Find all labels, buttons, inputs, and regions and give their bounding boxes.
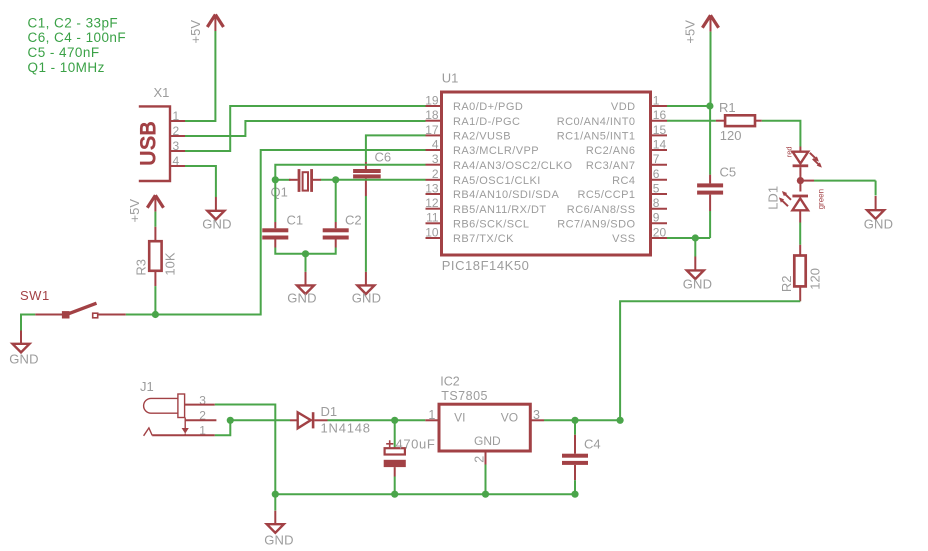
junction VDD xyxy=(706,102,713,109)
junction VO at C4 xyxy=(571,417,578,424)
wire C1 C2 bottom rail xyxy=(275,248,335,272)
junction rail left xyxy=(272,491,279,498)
pin U1.3 xyxy=(426,152,442,166)
crystal Q1 xyxy=(289,169,321,192)
wire crystal right to C2 xyxy=(335,180,337,222)
wire RC0 : U1.16 to R1 xyxy=(667,120,716,122)
resistor R3 xyxy=(149,227,161,286)
capacitor C6 xyxy=(353,162,381,196)
svg-text:13: 13 xyxy=(425,181,439,195)
svg-text:GND: GND xyxy=(9,351,39,366)
capacitor C5 xyxy=(697,175,723,211)
svg-text:16: 16 xyxy=(653,108,667,122)
IC U1 PIC18F14K50 body xyxy=(442,92,651,255)
svg-text:2: 2 xyxy=(432,167,439,181)
svg-text:RC5/CCP1: RC5/CCP1 xyxy=(577,189,635,201)
pin U1.9 xyxy=(651,211,668,225)
svg-text:RA5/OSC1/CLKI: RA5/OSC1/CLKI xyxy=(453,175,541,187)
svg-text:VSS: VSS xyxy=(612,233,635,245)
ground below X1.4 xyxy=(202,197,232,232)
+5V symbol above R3 xyxy=(147,195,163,211)
svg-text:D1: D1 xyxy=(321,404,338,419)
wire D1 to IC2 VI xyxy=(328,419,426,421)
pin U1.15 xyxy=(651,123,668,137)
pin U1.10 xyxy=(425,225,441,239)
pin U1.6 xyxy=(651,167,668,181)
svg-text:Q1 - 10MHz: Q1 - 10MHz xyxy=(28,60,105,75)
svg-text:17: 17 xyxy=(425,123,439,137)
diode D1 xyxy=(290,412,328,428)
LED red emission arrows xyxy=(810,153,822,168)
svg-text:GND: GND xyxy=(352,291,382,306)
svg-text:RB7/TX/CK: RB7/TX/CK xyxy=(453,233,514,245)
svg-text:11: 11 xyxy=(426,211,439,225)
svg-text:C1, C2 - 33pF: C1, C2 - 33pF xyxy=(28,15,119,30)
pin U1.8 xyxy=(651,196,668,210)
wire J1.3 down to GND rail xyxy=(215,405,275,495)
capacitor C2 xyxy=(323,222,349,248)
wire green LED to R2 xyxy=(799,223,801,245)
resistor R1 xyxy=(716,115,762,126)
LED LD1 red xyxy=(793,147,809,178)
svg-text:1: 1 xyxy=(428,408,435,422)
pin U1.1 xyxy=(651,93,668,107)
pin U1.18 xyxy=(425,108,441,122)
wire VSS : U1.20 to C5 bottom xyxy=(667,237,710,239)
svg-text:IC2: IC2 xyxy=(440,374,460,388)
svg-text:red: red xyxy=(785,146,794,157)
jack J1 symbol xyxy=(144,394,189,436)
svg-text:5: 5 xyxy=(653,181,660,195)
svg-text:470uF: 470uF xyxy=(396,437,436,452)
svg-text:LD1: LD1 xyxy=(766,186,781,210)
pin J1.2 xyxy=(185,419,216,421)
svg-text:RB5/AN11/RX/DT: RB5/AN11/RX/DT xyxy=(453,204,547,216)
junction Q1 right xyxy=(332,176,339,183)
wire C4 top lead xyxy=(574,420,576,435)
svg-text:VDD: VDD xyxy=(611,101,636,113)
wire 470uF to GND rail xyxy=(394,477,396,495)
wire SW1 to GND xyxy=(21,315,35,331)
pin U1.2 xyxy=(426,167,442,181)
+5V symbol (top, above X1.1) xyxy=(207,15,223,32)
wire C5 to VSS row xyxy=(709,211,711,238)
svg-text:R3: R3 xyxy=(134,259,149,276)
wire LED mid to GND xyxy=(800,177,875,196)
pin U1.7 xyxy=(651,152,668,166)
wire X1.4 to GND xyxy=(185,166,216,197)
svg-text:19: 19 xyxy=(425,93,439,107)
svg-text:R1: R1 xyxy=(719,100,736,115)
wire C6 to GND xyxy=(365,196,367,272)
junction VSS xyxy=(692,234,699,241)
svg-text:RB4/AN10/SDI/SDA: RB4/AN10/SDI/SDA xyxy=(453,189,559,201)
svg-text:3: 3 xyxy=(432,152,439,166)
pin U1.12 xyxy=(425,196,441,210)
svg-text:GND: GND xyxy=(202,217,232,232)
svg-text:120: 120 xyxy=(720,128,742,143)
wire R1 to red LED xyxy=(762,121,801,147)
wire J1.2 node to D1 xyxy=(230,419,290,421)
junction rail at C4 xyxy=(571,491,578,498)
wire MCLR : U1.4 to SW1/R3 node xyxy=(126,150,426,315)
ground right of LD1 xyxy=(864,196,894,232)
svg-text:C2: C2 xyxy=(345,213,362,228)
junction rail at IC2.2 xyxy=(482,491,489,498)
LED LD1 green xyxy=(792,195,808,223)
svg-text:U1: U1 xyxy=(442,71,459,86)
ground below C6 xyxy=(352,272,382,306)
note: component values text block xyxy=(28,15,127,74)
svg-text:TS7805: TS7805 xyxy=(441,389,488,403)
capacitor C3 470uF polarized xyxy=(384,440,406,476)
svg-text:10K: 10K xyxy=(163,252,178,275)
ground below VSS xyxy=(683,257,713,292)
svg-text:GND: GND xyxy=(474,434,501,448)
svg-text:PIC18F14K50: PIC18F14K50 xyxy=(442,258,530,273)
wire IC2.2 to GND rail xyxy=(485,465,487,495)
wire GND rail xyxy=(275,493,575,495)
ground below C1 C2 xyxy=(287,272,317,306)
svg-text:7: 7 xyxy=(653,152,660,166)
connector X1 (USB) symbol xyxy=(137,106,170,181)
pin X1.2 xyxy=(170,135,185,137)
svg-text:VI: VI xyxy=(454,411,465,425)
svg-text:RC0/AN4/INT0: RC0/AN4/INT0 xyxy=(557,116,636,128)
wire VSS to GND xyxy=(694,238,696,257)
svg-text:SW1: SW1 xyxy=(20,288,50,303)
svg-text:X1: X1 xyxy=(154,85,170,100)
wire C4 to GND rail xyxy=(574,480,576,494)
svg-text:15: 15 xyxy=(653,123,667,137)
pin U1.11 xyxy=(426,211,442,225)
ground below SW1 xyxy=(9,331,39,367)
switch SW1 xyxy=(35,303,126,318)
pin IC2.1 xyxy=(425,408,438,422)
wire crystal left to C1 xyxy=(274,180,276,222)
junction LED mid xyxy=(797,177,804,184)
+5V symbol (right, above U1 VDD) xyxy=(702,15,718,31)
svg-text:8: 8 xyxy=(653,196,660,210)
pin U1.4 xyxy=(426,137,442,151)
svg-text:RC4: RC4 xyxy=(612,175,635,187)
pin J1.3 xyxy=(185,404,215,406)
svg-text:2: 2 xyxy=(472,456,486,463)
svg-text:C6, C4 - 100nF: C6, C4 - 100nF xyxy=(28,30,127,45)
svg-text:C5 - 470nF: C5 - 470nF xyxy=(28,45,100,60)
svg-text:RC1/AN5/INT1: RC1/AN5/INT1 xyxy=(557,131,636,143)
svg-text:+5V: +5V xyxy=(683,20,698,44)
svg-text:C5: C5 xyxy=(720,165,737,180)
svg-text:VO: VO xyxy=(501,411,518,425)
pin U1.5 xyxy=(651,181,668,195)
svg-text:1: 1 xyxy=(653,93,660,107)
svg-text:RA0/D+/PGD: RA0/D+/PGD xyxy=(453,101,523,113)
junction VO corner xyxy=(617,417,624,424)
capacitor C4 xyxy=(562,435,588,480)
wire +5V node down to C5 xyxy=(709,106,711,175)
pin U1.17 xyxy=(425,123,441,137)
pin U1.14 xyxy=(651,137,668,151)
svg-text:GND: GND xyxy=(287,291,317,306)
junction J1.2 node xyxy=(227,417,234,424)
svg-text:green: green xyxy=(817,189,826,209)
junction R3/SW1 xyxy=(152,311,159,318)
svg-text:RC3/AN7: RC3/AN7 xyxy=(586,160,636,172)
junction C1C2 gnd xyxy=(302,250,309,257)
svg-text:Q1: Q1 xyxy=(271,184,288,199)
svg-text:RA4/AN3/OSC2/CLKO: RA4/AN3/OSC2/CLKO xyxy=(453,160,573,172)
pin J1.1 xyxy=(152,434,215,436)
svg-text:J1: J1 xyxy=(140,379,154,394)
svg-text:C6: C6 xyxy=(375,150,392,165)
wire X1.1 to +5V xyxy=(185,31,215,121)
svg-text:10: 10 xyxy=(425,225,439,239)
LED green emission arrows xyxy=(779,191,791,206)
junction rail at 470uF xyxy=(391,491,398,498)
svg-text:120: 120 xyxy=(808,268,823,290)
wire R3 to node xyxy=(154,286,156,314)
wire rail to GND symbol xyxy=(274,494,276,510)
capacitor C1 xyxy=(262,222,288,248)
svg-text:3: 3 xyxy=(533,408,540,422)
wire J1.1 up to J1.2 node xyxy=(215,420,231,435)
wire OSC2 : U1.3 to crystal left xyxy=(275,165,425,180)
wire +5V to R3 xyxy=(154,212,156,227)
svg-text:14: 14 xyxy=(653,137,667,151)
svg-text:GND: GND xyxy=(864,217,894,232)
wire OSC1 row : crystal to U1.2 xyxy=(275,179,425,181)
svg-text:GND: GND xyxy=(264,532,294,547)
pin U1.20 xyxy=(651,225,668,239)
svg-text:+5V: +5V xyxy=(188,20,203,44)
svg-text:RC2/AN6: RC2/AN6 xyxy=(586,145,636,157)
svg-text:RA1/D-/PGC: RA1/D-/PGC xyxy=(453,116,520,128)
svg-text:GND: GND xyxy=(683,277,713,292)
svg-text:USB: USB xyxy=(137,121,160,166)
IC2 regulator body xyxy=(439,404,530,451)
pin U1.19 xyxy=(425,93,441,107)
svg-text:R2: R2 xyxy=(779,275,794,292)
wire VDD : U1.1 to +5V node xyxy=(667,105,711,107)
svg-text:RA2/VUSB: RA2/VUSB xyxy=(453,131,511,143)
svg-text:4: 4 xyxy=(432,137,439,151)
wire VO to C4 and R2 net xyxy=(544,419,620,421)
pin X1.3 xyxy=(170,150,185,152)
resistor R2 xyxy=(794,245,805,301)
svg-text:18: 18 xyxy=(425,108,439,122)
pin U1.13 xyxy=(425,181,441,195)
pin IC2.2 xyxy=(472,451,486,464)
wire VUSB : U1.17 to C6 xyxy=(366,135,426,162)
svg-text:C4: C4 xyxy=(584,436,601,451)
svg-text:C1: C1 xyxy=(287,213,304,228)
pin X1.1 xyxy=(170,120,185,122)
svg-text:RA3/MCLR/VPP: RA3/MCLR/VPP xyxy=(453,145,539,157)
ground below rail xyxy=(264,511,294,548)
wire junction down to 470uF xyxy=(394,420,396,447)
wire D- : X1.2 to U1.18 xyxy=(185,121,426,136)
wire R2 to VO net xyxy=(620,301,800,420)
wire D+ : X1.3 to U1.19 xyxy=(185,106,426,151)
svg-text:9: 9 xyxy=(653,211,660,225)
junction Q1 left xyxy=(272,176,279,183)
junction 470uF top xyxy=(391,417,398,424)
svg-text:20: 20 xyxy=(653,225,667,239)
pin U1.16 xyxy=(651,108,668,122)
svg-text:1N4148: 1N4148 xyxy=(321,420,371,435)
pin IC2.3 xyxy=(531,408,544,422)
svg-text:6: 6 xyxy=(653,167,660,181)
wire +5V down to VDD xyxy=(710,32,712,106)
svg-text:RC7/AN9/SDO: RC7/AN9/SDO xyxy=(557,218,635,230)
svg-text:RC6/AN8/SS: RC6/AN8/SS xyxy=(567,204,636,216)
svg-text:+5V: +5V xyxy=(127,199,142,223)
svg-text:RB6/SCK/SCL: RB6/SCK/SCL xyxy=(453,218,529,230)
pin X1.4 xyxy=(170,165,185,167)
svg-text:12: 12 xyxy=(425,196,439,210)
